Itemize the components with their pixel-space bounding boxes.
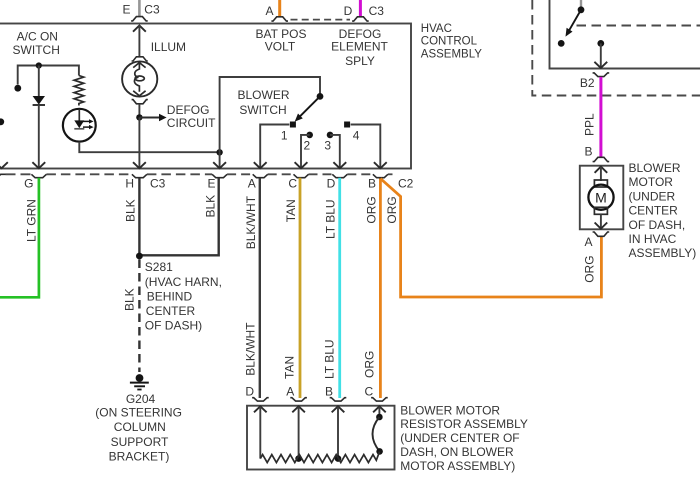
connector pin E of C3 (dip): [212, 174, 227, 177]
connector pin D of C2 (dip): [332, 174, 347, 177]
ground G204 symbol: [136, 374, 144, 382]
arrow at pin B2 (inside box): [594, 62, 607, 68]
bottom connector dashed strip: [6, 173, 393, 175]
internal lead from pin A: [298, 407, 300, 459]
connector pin B of motor (cap): [593, 157, 610, 161]
rear defog switch inner box: [550, 0, 700, 69]
svg-text:ILLUM: ILLUM: [151, 40, 186, 54]
svg-text:4: 4: [353, 128, 360, 142]
svg-text:G204: G204: [126, 392, 156, 406]
svg-text:C3: C3: [369, 4, 385, 18]
connector pin C of resistor (dip): [371, 398, 388, 401]
connector pin A of C2 (dip): [253, 174, 268, 177]
connector pin G of C3 (dip): [31, 174, 46, 177]
svg-text:BLK: BLK: [204, 195, 218, 218]
wire bus of A/C switch branch: [18, 66, 79, 85]
svg-text:MOTOR: MOTOR: [629, 175, 674, 189]
svg-text:C3: C3: [144, 3, 160, 17]
arrow at resistor pin C (inside box): [373, 406, 386, 412]
wire stub (orange) into pin A of C3: [278, 0, 281, 17]
svg-text:B2: B2: [580, 76, 595, 90]
switch SW3 lever with arrow: [568, 12, 579, 31]
switch SW3 contact (right, to B2): [597, 40, 604, 47]
svg-text:ASSEMBLY): ASSEMBLY): [629, 246, 697, 260]
blower switch contact 4 (square): [344, 122, 350, 128]
svg-text:B: B: [368, 177, 376, 191]
arrow at motor pin B (inside box): [595, 167, 608, 173]
switch SW3 contact (left): [558, 40, 565, 47]
wire junction down to pin H: [138, 117, 140, 168]
wire stub (gray) into pin E of C3: [138, 0, 141, 17]
connector C3 dashed link between pins A and D: [291, 19, 351, 21]
svg-text:BLK: BLK: [124, 199, 138, 222]
arrow at motor pin A (inside box): [595, 223, 608, 229]
arrow at resistor pin A (inside box): [292, 406, 305, 412]
svg-text:MOTOR ASSEMBLY): MOTOR ASSEMBLY): [400, 459, 515, 473]
svg-text:DEFOG: DEFOG: [167, 103, 210, 117]
DEFOG CIRCUIT reference arrow: [139, 117, 159, 119]
LED light arrows: [83, 120, 89, 122]
wire ORG branch pin B to blower motor: [380, 179, 601, 298]
lamp ILLUM: bulb circle: [122, 61, 157, 96]
svg-text:LT BLU: LT BLU: [324, 199, 338, 239]
svg-text:B: B: [584, 145, 592, 159]
blower switch SW2 feed wire: [220, 77, 320, 152]
svg-text:BLK: BLK: [123, 288, 137, 311]
connector pin D of resistor (dip): [252, 398, 269, 401]
wire ORG pin B to resistor pin C: [379, 179, 382, 399]
junction node (E return): [216, 149, 222, 155]
svg-text:IN HVAC: IN HVAC: [629, 232, 677, 246]
arrow at pin G (inside box): [32, 162, 45, 168]
wire contact 1 to pin A: [260, 125, 289, 169]
svg-text:CIRCUIT: CIRCUIT: [167, 116, 216, 130]
resistor R1 (LED dropping resistor): [74, 76, 84, 106]
svg-text:BLOWER: BLOWER: [629, 161, 681, 175]
svg-text:SUPPORT: SUPPORT: [111, 435, 169, 449]
motor armature circle with M: [588, 185, 613, 210]
svg-text:BLOWER: BLOWER: [237, 88, 289, 102]
svg-text:VOLT: VOLT: [265, 40, 296, 54]
diode CR1 anode lead: [38, 66, 40, 97]
arrow at pin D (inside box): [333, 162, 346, 168]
svg-text:A: A: [584, 235, 592, 249]
svg-text:TAN: TAN: [283, 356, 297, 379]
svg-text:SWITCH: SWITCH: [13, 43, 60, 57]
junction node (diode branch): [36, 62, 42, 68]
svg-text:C: C: [365, 385, 374, 399]
svg-text:A: A: [248, 177, 256, 191]
wire junction down to pin E: [219, 152, 221, 168]
diode CR1 cathode lead down to pin G: [38, 105, 40, 168]
wire lamp to junction: [138, 104, 140, 118]
wire ILLUM feed with up arrow: [133, 26, 146, 32]
wire LT BLU pin D to resistor pin B: [338, 178, 341, 398]
lamp ILLUM: bottom terminal cap: [132, 100, 148, 104]
svg-text:E: E: [122, 3, 130, 17]
connector pin A of resistor (dip): [290, 398, 307, 401]
partial arrow at cut-off left pin: [0, 162, 8, 168]
connector pin H of C3 (dip): [132, 174, 147, 177]
connector pin E of C3 (cap): [131, 17, 148, 21]
LED lead inside: [78, 109, 80, 121]
arrow at pin B (inside box): [374, 162, 387, 168]
svg-text:(UNDER: (UNDER: [629, 189, 676, 203]
connector pin A of C3 (cap): [271, 17, 288, 21]
svg-text:BLK/WHT: BLK/WHT: [244, 195, 258, 249]
blower motor resistor assembly box: [247, 406, 395, 470]
wire TAN pin C to resistor pin A: [299, 178, 302, 398]
switch S1 contact (lower left, cut by edge): [0, 118, 4, 125]
svg-text:ELEMENT: ELEMENT: [331, 40, 388, 54]
svg-text:SPLY: SPLY: [345, 54, 375, 68]
LED indicator D2 circle: [63, 109, 96, 142]
lamp ILLUM: top terminal cap: [132, 57, 148, 61]
svg-text:(HVAC HARN,: (HVAC HARN,: [145, 275, 222, 289]
svg-text:M: M: [595, 190, 607, 206]
svg-text:DASH, ON BLOWER: DASH, ON BLOWER: [400, 445, 514, 459]
blower switch contact 3: [327, 132, 334, 139]
LED cathode bar: [74, 128, 84, 130]
svg-text:A: A: [265, 4, 273, 18]
motor brush (top): [594, 180, 607, 187]
bypass arc (pin C to resistor tap): [372, 417, 379, 451]
svg-text:CENTER: CENTER: [146, 304, 196, 318]
blower switch contact 2: [306, 132, 313, 139]
arrow at resistor pin B (inside box): [332, 406, 345, 412]
svg-text:D: D: [245, 385, 254, 399]
svg-text:S281: S281: [145, 260, 173, 274]
internal lead from pin B: [337, 407, 339, 459]
blower switch lever with arrow: [299, 99, 318, 118]
svg-text:A: A: [286, 385, 294, 399]
wire BLK from pin E to S281: [141, 178, 219, 256]
blower switch contact 1 (square): [290, 122, 296, 128]
LED triangle: [74, 120, 84, 128]
svg-text:ORG: ORG: [385, 196, 399, 223]
connector pin D of C3 (cap): [352, 17, 369, 21]
connector pin C of C2 (dip): [294, 174, 309, 177]
svg-text:(ON STEERING: (ON STEERING: [95, 406, 182, 420]
svg-text:E: E: [207, 177, 215, 191]
svg-text:PPL: PPL: [583, 113, 597, 136]
svg-text:C3: C3: [150, 177, 166, 191]
junction node on resistor element (pin B): [335, 455, 342, 462]
switch SW3 pivot contact: [578, 6, 585, 13]
wire contact 2 to pin C: [301, 135, 310, 168]
LED return wire to junction: [79, 142, 219, 153]
svg-text:CENTER: CENTER: [629, 204, 679, 218]
wire BLK from pin H to S281: [138, 178, 140, 256]
junction node on resistor element (pin A): [295, 455, 302, 462]
rear defog switch outer dashed box: [532, 0, 700, 96]
wire contact to pin B2: [600, 43, 602, 67]
blower switch pivot contact: [317, 93, 324, 100]
svg-text:BRACKET): BRACKET): [109, 449, 170, 463]
svg-text:SWITCH: SWITCH: [239, 103, 286, 117]
motor lead top: [600, 167, 602, 181]
arrow at resistor pin D (inside box): [254, 406, 267, 412]
junction node (lamp / defog / H): [136, 114, 142, 120]
wire stub (purple) into pin D of C3: [359, 0, 362, 17]
lamp ILLUM: internal down arrow: [133, 91, 145, 96]
blower motor M1 box: [580, 166, 624, 230]
arrow at pin H (inside box): [133, 162, 146, 168]
svg-text:HVAC: HVAC: [421, 23, 452, 35]
arrow at pin A (inside box): [254, 162, 267, 168]
svg-text:BLOWER MOTOR: BLOWER MOTOR: [400, 403, 500, 417]
switch S1 contact (top): [14, 85, 21, 92]
wire contact 4 to pin B: [351, 125, 381, 169]
wire BLK/WHT pin A to resistor pin D: [259, 178, 261, 398]
svg-text:BLK/WHT: BLK/WHT: [244, 322, 258, 376]
internal lead from pin C: [378, 407, 380, 414]
svg-text:LT GRN: LT GRN: [25, 199, 39, 242]
svg-text:(UNDER CENTER OF: (UNDER CENTER OF: [400, 431, 519, 445]
connector pin B of resistor (dip): [330, 398, 347, 401]
svg-text:H: H: [125, 177, 134, 191]
svg-text:1: 1: [281, 128, 288, 142]
svg-text:B: B: [325, 385, 333, 399]
HVAC control assembly box U1: [0, 24, 411, 169]
internal lead from pin D: [259, 407, 261, 459]
wire stub (gray) to switch pivot: [580, 0, 582, 8]
svg-text:CONTROL: CONTROL: [421, 36, 478, 48]
inner dashed boundary: [577, 25, 700, 27]
svg-text:D: D: [344, 4, 353, 18]
motor brush (bottom): [594, 207, 607, 214]
svg-text:COLUMN: COLUMN: [114, 420, 166, 434]
svg-text:BEHIND: BEHIND: [147, 289, 193, 303]
arrow at pin C (inside box): [295, 162, 308, 168]
svg-text:OF DASH,: OF DASH,: [629, 218, 686, 232]
wire contact 3 to pin D: [330, 135, 340, 168]
svg-text:ASSEMBLY: ASSEMBLY: [421, 48, 482, 60]
svg-text:RESISTOR ASSEMBLY: RESISTOR ASSEMBLY: [400, 417, 528, 431]
connector pin B2 (dip): [593, 73, 610, 77]
splice S281: [136, 253, 143, 260]
svg-text:ORG: ORG: [365, 196, 379, 223]
resistor element R2 (zigzag): [260, 451, 379, 462]
lamp ILLUM: filament: [134, 63, 139, 92]
svg-text:A/C ON: A/C ON: [17, 30, 58, 44]
diode CR1: [33, 96, 45, 105]
svg-text:LT BLU: LT BLU: [323, 339, 337, 379]
motor lead bottom: [600, 214, 602, 228]
svg-text:TAN: TAN: [284, 199, 298, 222]
node (top of bypass arc): [376, 414, 383, 421]
partial connector dip at cut-off left pin: [0, 174, 6, 178]
svg-text:2: 2: [303, 138, 310, 152]
svg-text:G: G: [24, 177, 33, 191]
svg-text:OF DASH): OF DASH): [145, 319, 202, 333]
svg-text:ORG: ORG: [363, 351, 377, 378]
connector pin B of C2 (dip): [373, 174, 388, 177]
lamp ILLUM: internal up arrow: [133, 63, 145, 68]
dashed BLK wire S281 to ground: [138, 260, 140, 373]
wire LT GRN from pin G: [0, 178, 39, 297]
arrow at pin E (inside box): [213, 162, 226, 168]
wire PPL to blower motor: [599, 77, 602, 157]
node (bottom of bypass arc): [376, 448, 383, 455]
svg-text:3: 3: [324, 138, 331, 152]
svg-text:C2: C2: [398, 177, 414, 191]
svg-text:D: D: [327, 177, 336, 191]
svg-text:ORG: ORG: [583, 255, 597, 282]
connector pin A of motor (dip): [593, 232, 610, 236]
svg-text:C: C: [288, 177, 297, 191]
